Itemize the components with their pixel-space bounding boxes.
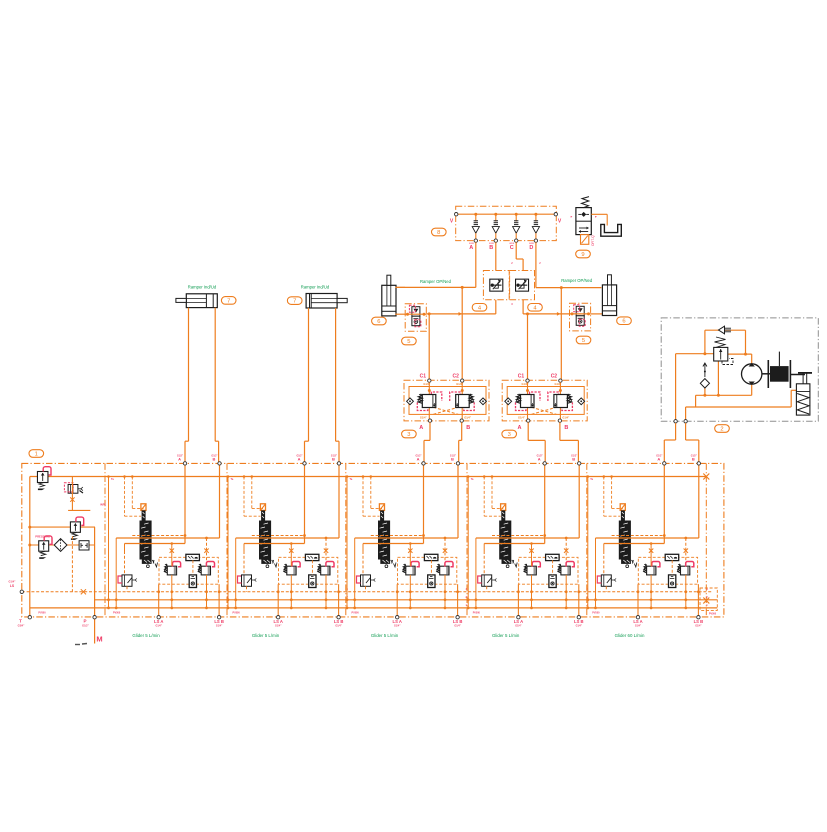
svg-text:G1/2: G1/2 [469,243,475,245]
hop mark at D drop crossing [557,312,561,316]
junction on C1 drop block2 [526,312,529,315]
vertical cylinder 6 right [602,275,616,316]
system relief valve [714,337,733,365]
junction on D line [560,286,563,289]
svg-text:G3/4”: G3/4” [18,625,25,628]
check valve with arrow [700,363,709,388]
counterbalance cartridge right [456,394,487,408]
wire C2 to B [461,382,463,419]
section divider lines [104,463,106,617]
circled number 6 left [372,317,387,325]
svg-text:B: B [564,425,568,431]
inlet relief valve 3 [39,541,49,551]
port A [527,419,530,422]
svg-text:Glider 5 L/min: Glider 5 L/min [492,633,520,638]
inlet unloading valve [64,483,83,494]
glider section 5 [586,456,708,628]
svg-text:C1: C1 [420,374,427,380]
counterbalance valve block 3 enclosure [404,380,489,421]
svg-text:G1/2”: G1/2” [82,625,89,628]
pump [742,363,762,385]
red pilot frames right [450,392,461,401]
inner frame [409,387,486,415]
svg-text:G1/2: G1/2 [529,243,535,245]
svg-text:8: 8 [437,230,440,236]
wire through valve5 left [405,313,426,315]
svg-text:5: 5 [582,338,585,344]
circled number 3 right [502,430,517,438]
port B [460,419,463,422]
svg-text:M: M [96,635,102,644]
circled number 8 [432,228,447,236]
counterbalance cartridge left [407,394,436,408]
power unit ports [674,420,677,423]
inlet lower rail [30,544,95,546]
inlet tank stub [68,509,90,511]
wire B from box1 down [495,300,497,314]
glider section 2 [227,456,349,628]
glider section 1 [107,456,229,628]
circled number 5 left [402,337,417,345]
svg-text:Glider 5 L/min: Glider 5 L/min [371,633,399,638]
hop mark at C2 drop crossing [459,312,463,316]
node V left [456,213,556,215]
port P [93,616,96,619]
inlet filter [54,539,67,552]
svg-text:G1/4”: G1/4” [562,415,570,419]
wire C2 to B [559,382,561,419]
svg-text:A: A [518,425,522,431]
wire from valve 9 to bracket [591,213,607,215]
wire D horizontal to cylinder right [536,287,602,289]
circled number 5 right [576,336,591,344]
svg-text:3: 3 [508,432,511,438]
wire C2 drop block2 [560,288,562,379]
circled number 6 right [617,317,632,325]
crossed pilot dashes [433,407,458,414]
svg-text:9: 9 [581,252,584,258]
red pilot frames right [548,392,559,401]
wire C1 to A [527,382,529,419]
tank rail upper [95,599,718,601]
port T [28,616,31,619]
check valve B in block 8 [489,213,499,251]
svg-text:5: 5 [407,339,410,345]
port C2 [461,379,464,382]
svg-text:G1/4”: G1/4” [464,415,472,419]
svg-text:Ramper OP/Ned: Ramper OP/Ned [561,278,593,283]
svg-text:LS: LS [10,584,15,588]
node V right [554,213,557,216]
wire LS horizontal left group [426,313,496,315]
inlet pilot dashed down [71,536,73,592]
pilot check valve 5 left [405,304,426,332]
svg-text:G1/4”: G1/4” [518,415,526,419]
svg-text:G1/2: G1/2 [509,243,515,245]
pressure rail P [30,476,707,478]
counterbalance cartridge left [505,394,534,408]
circled number 4 left [472,304,487,312]
shuttle/check valve block 8 dashed enclosure [456,206,557,240]
wires power unit to manifold [675,423,677,440]
inner frame [507,387,584,415]
wires cylinder7 left to manifold A B [188,308,190,442]
wire horizontal right group [523,313,569,315]
wire A down [475,242,477,287]
svg-text:C: C [510,245,514,251]
solenoid cartridge valve 9 [576,197,591,235]
check valve D in block 8 [529,213,539,251]
power unit 2 enclosure [661,318,818,421]
svg-text:PV500: PV500 [709,613,717,616]
inlet mid rail [30,526,95,528]
svg-text:G1/4”: G1/4” [420,415,428,419]
svg-text:Ramper OP/Ned: Ramper OP/Ned [420,279,452,284]
wire C down with jog [515,242,517,259]
svg-text:T: T [19,619,22,624]
circled number 3 left [402,430,417,438]
counterbalance valve block 3 enclosure [502,380,587,421]
manifold block 1 outer border [22,463,724,617]
circled number 2 [715,425,730,433]
svg-text:C1: C1 [518,374,525,380]
circled number 7 left [221,297,236,305]
svg-text:INP1: INP1 [100,503,106,507]
wires from A B down to manifold [429,422,431,440]
wire C1 drop block2 [527,314,529,379]
svg-text:2: 2 [720,427,723,433]
cylinder 7 right Ramper Ind/Ud [306,294,347,309]
svg-text:7: 7 [227,298,230,304]
svg-text:PV500: PV500 [38,612,46,615]
cylinder 7 left Ramper Ind/Ud [176,294,217,308]
wire C1 drop block1 [428,314,430,379]
svg-text:Glider 60 L/min: Glider 60 L/min [615,633,645,638]
wires from A B down to manifold [527,422,529,440]
wire C1 to A [428,382,430,419]
svg-text:6: 6 [622,319,625,325]
stray marks [75,644,80,646]
inlet left vertical T line [29,477,31,618]
vertical cylinder 6 left [382,275,396,316]
port B [558,419,561,422]
electric motor [762,352,812,388]
svg-text:A: A [419,425,423,431]
svg-text:C2: C2 [452,374,459,380]
svg-text:6: 6 [377,319,380,325]
circled number 9 [576,250,591,258]
inlet pilot line down [71,477,73,511]
plug X marks [81,589,86,594]
wire C from box2 down [522,300,524,314]
check valve C in block 8 [509,213,519,251]
inlet relief valve main [37,472,48,483]
wire D down [535,242,537,287]
circled number 1 [29,450,44,458]
check valve A in block 8 [469,213,479,251]
wire through valve5 right [570,313,591,315]
flow control valve box 4a [483,271,509,300]
glider section 3 [346,456,468,628]
circled number 4 right [528,304,543,312]
tank rail lower [30,607,718,609]
svg-text:Glider 5 L/min: Glider 5 L/min [132,633,160,638]
svg-text:D: D [529,245,533,251]
power unit wires [676,330,797,421]
svg-text:B: B [466,425,470,431]
wire valve5R to cylinder right bottom [591,313,603,315]
svg-text:1: 1 [35,452,38,458]
svg-text:G1/2: G1/2 [489,243,495,245]
port C2 [559,379,562,382]
spring accumulator [796,373,810,415]
counterbalance cartridge right [554,394,585,408]
flow control valve box 4b [510,271,535,300]
node LS on left border [20,590,23,593]
red pilot frames left [530,392,541,401]
LS rail dashed [22,591,712,593]
junction on A line [461,286,464,289]
pilot check valve 5 right [570,303,591,331]
mounting bracket [601,224,622,236]
port C1 [428,379,431,382]
port C1 [526,379,529,382]
wires cylinder7 right to manifold A B [308,308,310,441]
svg-text:P: P [83,619,86,624]
circled number 7 right [287,297,302,305]
check orifice top [719,326,732,334]
inlet relief valve 2 [70,522,80,532]
crossed pilot dashes [532,407,557,414]
right end small frame [700,588,717,610]
wire C2 drop block1 [461,287,463,379]
svg-text:3: 3 [407,432,410,438]
wire cylinder6 left top port [395,286,405,288]
port A [428,419,431,422]
junction on C1 drop [428,312,431,315]
inlet P vertical [94,527,96,643]
glider section 4 [467,456,589,628]
wire cylinder6 left bottom port [395,313,405,315]
svg-text:A: A [469,245,473,251]
solenoid coil of valve 9 [581,235,596,246]
inlet orifice [79,541,89,550]
svg-text:OFIT-Q: OFIT-Q [591,235,595,246]
svg-text:C2: C2 [551,374,558,380]
wire A horizontal to cylinder top left [395,286,476,288]
svg-text:Ramper Ind/Ud: Ramper Ind/Ud [188,285,217,290]
wire B down to flow box1 [495,242,497,270]
svg-text:Ramper Ind/Ud: Ramper Ind/Ud [301,285,330,290]
red pilot frames left [431,392,442,401]
svg-text:B: B [489,245,493,251]
svg-text:7: 7 [293,299,296,305]
svg-text:Glider 5 L/min: Glider 5 L/min [252,633,280,638]
